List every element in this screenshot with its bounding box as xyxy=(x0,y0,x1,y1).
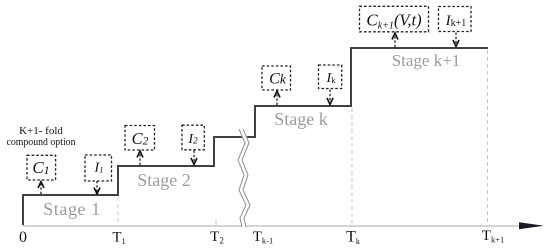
axis label Tk-1 xyxy=(253,229,274,246)
axis label Tk+1 xyxy=(482,228,504,245)
axis label T2 xyxy=(210,229,224,246)
stage k label xyxy=(274,109,328,129)
stage k+1 label xyxy=(392,51,461,70)
tick at T2 xyxy=(215,220,217,226)
arrow up to C1 xyxy=(38,182,44,195)
annotation: K+1-fold compound option xyxy=(7,125,76,148)
box C2 xyxy=(125,126,155,151)
box C1 xyxy=(27,155,56,180)
axis label Tk xyxy=(346,229,360,247)
box Ck xyxy=(262,66,291,90)
axis break zigzag left stroke xyxy=(238,129,246,227)
stage 2 label xyxy=(137,170,191,190)
axis break zigzag right stroke xyxy=(242,129,250,227)
dashed vertical at Tk+1 xyxy=(487,50,489,225)
svg-text:Ck: Ck xyxy=(269,70,287,87)
axis arrowhead xyxy=(519,222,544,229)
svg-text:Ck+1(V,t): Ck+1(V,t) xyxy=(366,10,421,31)
arrow up to C2 xyxy=(137,151,143,165)
box Ik+1 xyxy=(439,7,472,32)
svg-text:Tk: Tk xyxy=(346,229,360,247)
svg-text:T2: T2 xyxy=(210,229,224,246)
svg-text:Stage 1: Stage 1 xyxy=(43,199,101,219)
stage 1 label xyxy=(43,199,101,219)
arrow down from Ik+1 xyxy=(453,33,459,47)
staircase step function xyxy=(23,48,488,225)
arrow down from I1 xyxy=(94,181,100,194)
arrow up to Ck+1 xyxy=(392,33,398,47)
arrow down from I2 xyxy=(191,151,197,165)
dashed vertical at T1 xyxy=(117,197,119,225)
box Ck+1(V,t) xyxy=(360,6,429,32)
svg-text:compound option: compound option xyxy=(7,136,76,148)
box I1 xyxy=(85,155,112,181)
svg-text:T1: T1 xyxy=(112,230,125,247)
svg-text:Tk-1: Tk-1 xyxy=(253,229,274,246)
arrow up to Ck xyxy=(274,91,280,105)
box Ik xyxy=(319,65,342,89)
time axis xyxy=(23,225,522,227)
box I2 xyxy=(182,125,204,150)
svg-text:Tk+1: Tk+1 xyxy=(482,228,504,245)
svg-text:Stage 2: Stage 2 xyxy=(137,170,191,190)
dashed vertical at Tk xyxy=(351,108,353,225)
arrow down from Ik xyxy=(327,90,333,105)
axis label 0 xyxy=(19,229,27,246)
svg-text:Stage k: Stage k xyxy=(274,109,328,129)
axis label T1 xyxy=(112,230,125,247)
svg-text:0: 0 xyxy=(19,229,27,246)
svg-text:Stage k+1: Stage k+1 xyxy=(392,51,461,70)
axis break (white gap) xyxy=(240,129,248,227)
